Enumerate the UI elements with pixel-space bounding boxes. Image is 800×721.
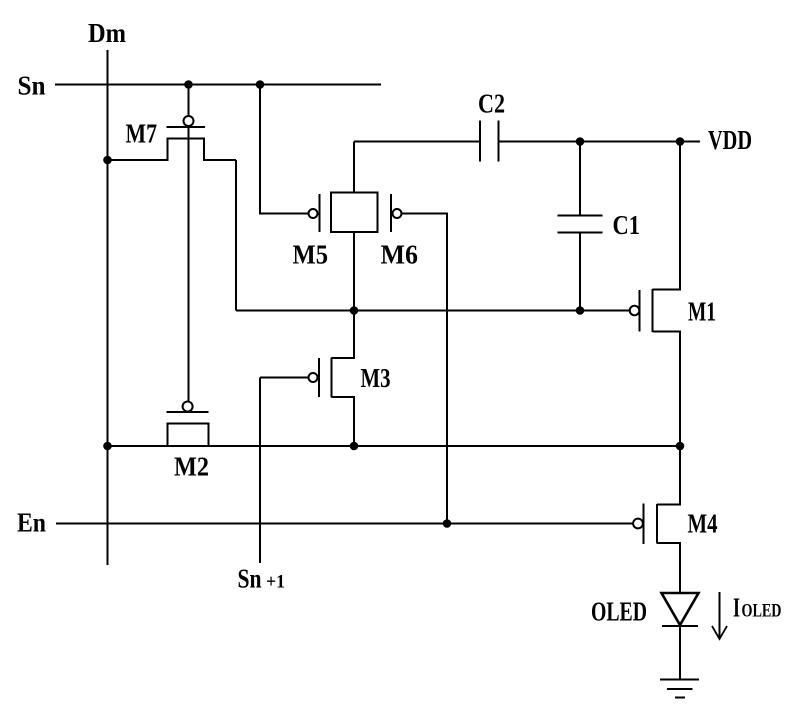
wire Sn gate drop to M7/M2 bbox=[188, 85, 190, 402]
wire M3 gate to Sn+1 bbox=[260, 377, 309, 379]
node C1-VDD junction bbox=[576, 137, 585, 146]
transistor M5 gate bar bbox=[319, 194, 321, 232]
bubble M7 gate bbox=[184, 116, 194, 126]
ground bbox=[660, 680, 699, 698]
node M3-nodeB junction bbox=[350, 442, 359, 451]
svg-text:C2: C2 bbox=[478, 89, 505, 119]
node storage-M3 junction bbox=[350, 306, 359, 315]
svg-text:M7: M7 bbox=[126, 119, 158, 149]
svg-text:En: En bbox=[17, 508, 46, 538]
wire Sn to M5 gate bbox=[260, 85, 309, 214]
transistor M6 gate bar bbox=[390, 194, 392, 232]
node C1-storage junction bbox=[576, 306, 585, 315]
transistor M5/M6 shared body bbox=[331, 193, 378, 233]
bubble M3 gate bbox=[309, 373, 318, 382]
svg-text:M2: M2 bbox=[174, 452, 209, 482]
svg-text:M4: M4 bbox=[688, 509, 718, 539]
svg-text:C1: C1 bbox=[613, 210, 641, 240]
bubble M2 gate bbox=[183, 402, 193, 412]
wire M4 drain down to OLED anode bbox=[657, 543, 680, 593]
wire Sn horizontal scan line bbox=[55, 84, 381, 86]
transistor M4 bbox=[644, 504, 658, 545]
node M6-En junction bbox=[443, 519, 452, 528]
bubble M4 gate bbox=[633, 519, 643, 529]
capacitor C2 bbox=[480, 121, 499, 162]
svg-text:M5: M5 bbox=[293, 240, 329, 270]
wire En horizontal enable line bbox=[56, 523, 633, 525]
wire node B horizontal bbox=[108, 445, 681, 447]
transistor M7 bbox=[108, 127, 237, 160]
node M1-M4 junction bbox=[676, 442, 685, 451]
bubble M1 gate bbox=[630, 306, 640, 316]
svg-text:I: I bbox=[733, 593, 740, 623]
node VDD-M1 junction bbox=[676, 137, 685, 146]
wire M7 drain down to storage node bbox=[235, 160, 237, 311]
node Sn-M5 junction bbox=[256, 80, 265, 89]
wire VDD rail right segment bbox=[499, 141, 701, 143]
arrow IOLED current bbox=[712, 592, 727, 639]
svg-text:M1: M1 bbox=[688, 297, 716, 327]
svg-text:+1: +1 bbox=[266, 573, 285, 593]
wire node B down to M4 source bbox=[657, 446, 680, 505]
wire M3 drain down to node B bbox=[332, 397, 355, 446]
transistor M3 bbox=[319, 358, 332, 398]
wire VDD down to M1 source bbox=[653, 142, 681, 290]
svg-text:Dm: Dm bbox=[88, 18, 126, 48]
svg-text:OLED: OLED bbox=[591, 597, 647, 627]
capacitor C1 bbox=[558, 142, 603, 311]
svg-text:Sn: Sn bbox=[238, 564, 262, 594]
wire M1 drain down to node B bbox=[653, 332, 681, 447]
wire Dm vertical data line bbox=[107, 50, 109, 565]
wire storage node horizontal to M1 gate bbox=[236, 310, 630, 312]
wire box top to VDD rail bbox=[353, 142, 355, 193]
wire VDD rail left segment bbox=[354, 141, 480, 143]
wire box bottom down to storage node bbox=[353, 232, 355, 311]
svg-text:Sn: Sn bbox=[18, 71, 46, 101]
wire OLED cathode to ground bbox=[679, 626, 681, 679]
svg-text:M6: M6 bbox=[381, 240, 419, 270]
bubble M6 gate bbox=[393, 209, 402, 218]
gate bubbles (white-filled circles) bbox=[183, 116, 643, 528]
svg-text:OLED: OLED bbox=[742, 602, 782, 622]
bubble M5 gate bbox=[309, 209, 318, 218]
diode OLED bbox=[662, 593, 699, 626]
transistor M1 bbox=[640, 289, 653, 332]
transistor M2 bbox=[167, 412, 209, 446]
wire Sn+1 vertical bbox=[259, 378, 261, 564]
node Dm-nodeB junction bbox=[103, 442, 112, 451]
node Sn-gate junction bbox=[184, 80, 193, 89]
wire M6 gate to En bbox=[402, 214, 448, 524]
wire M3 source up to storage node bbox=[332, 311, 355, 359]
node Dm-M7 junction bbox=[103, 156, 112, 165]
svg-text:VDD: VDD bbox=[708, 125, 752, 155]
svg-text:M3: M3 bbox=[361, 363, 391, 393]
